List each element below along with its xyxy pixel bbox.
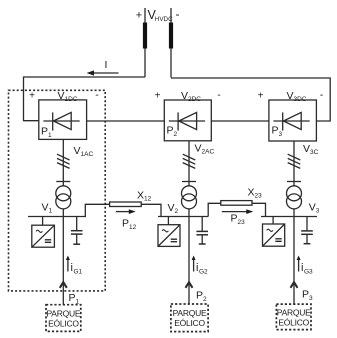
wire X23 to bus3 bbox=[252, 203, 266, 216]
label V_3C bbox=[303, 143, 319, 156]
label V_2AC bbox=[195, 143, 215, 156]
capacitor C2 bbox=[196, 217, 208, 245]
diode D1 bbox=[43, 112, 79, 130]
wire top right run to P3 bbox=[171, 78, 330, 121]
label X12 bbox=[137, 190, 152, 203]
label P3 feeder bbox=[302, 289, 313, 303]
converter U3 box bbox=[269, 100, 317, 141]
svg-text:V: V bbox=[195, 143, 202, 155]
wind farm box 1 bbox=[46, 305, 81, 332]
svg-text:12: 12 bbox=[144, 196, 152, 203]
svg-text:PARQUE: PARQUE bbox=[277, 307, 311, 317]
label V_3DC bbox=[258, 89, 324, 103]
label V_1DC bbox=[29, 89, 99, 103]
node V_HVDC label bbox=[136, 7, 180, 23]
electrode bar negative bbox=[169, 23, 173, 49]
wire X12 to bus2 bbox=[141, 204, 161, 216]
label V2 bbox=[168, 202, 179, 215]
arrow head feeder 3 bbox=[291, 282, 298, 288]
terminal tick column 3 bbox=[287, 181, 301, 183]
wire bus1 riser to X12 bbox=[85, 204, 109, 216]
svg-text:P: P bbox=[122, 218, 129, 230]
svg-text:+: + bbox=[136, 10, 142, 22]
svg-text:V: V bbox=[42, 202, 49, 214]
current arrow iG3 bbox=[297, 256, 313, 276]
label V_1AC bbox=[74, 145, 94, 158]
svg-text:G2: G2 bbox=[199, 269, 208, 276]
power flow arrow P23 bbox=[222, 209, 253, 226]
power flow arrow P12 bbox=[116, 209, 137, 231]
three-phase slashes column 3 bbox=[288, 154, 301, 168]
converter U2 box bbox=[164, 100, 211, 141]
svg-text:3: 3 bbox=[309, 295, 313, 302]
svg-text:12: 12 bbox=[129, 224, 137, 231]
current I arrow bbox=[87, 59, 119, 76]
label P2 bbox=[167, 125, 178, 139]
svg-text:P: P bbox=[272, 125, 279, 137]
svg-text:PARQUE: PARQUE bbox=[47, 308, 81, 318]
wire T2 to bus 2 bbox=[188, 209, 190, 217]
svg-text:3C: 3C bbox=[310, 149, 319, 156]
svg-text:2AC: 2AC bbox=[202, 149, 215, 156]
svg-text:+: + bbox=[29, 91, 35, 102]
arrow head feeder 1 bbox=[60, 282, 67, 288]
reactance X23 box bbox=[221, 201, 252, 206]
current arrow iG1 bbox=[66, 256, 83, 276]
svg-text:-: - bbox=[176, 7, 180, 21]
svg-text:X: X bbox=[248, 187, 255, 199]
bus node 1 bbox=[28, 216, 86, 218]
diode D2 bbox=[169, 112, 205, 130]
label P1 bbox=[41, 126, 52, 140]
svg-text:P: P bbox=[41, 126, 48, 138]
svg-text:P: P bbox=[167, 125, 174, 137]
svg-text:3: 3 bbox=[316, 208, 320, 215]
svg-text:V: V bbox=[168, 202, 175, 214]
svg-text:3: 3 bbox=[279, 131, 283, 138]
svg-text:G1: G1 bbox=[74, 269, 83, 276]
label X23 bbox=[248, 187, 263, 200]
svg-text:-: - bbox=[320, 89, 324, 101]
svg-text:2: 2 bbox=[175, 208, 179, 215]
svg-text:X: X bbox=[137, 190, 144, 202]
wire bus2 riser to X23 bbox=[208, 203, 221, 216]
converter U1 box bbox=[39, 100, 87, 139]
svg-text:P: P bbox=[196, 290, 203, 302]
svg-text:1: 1 bbox=[48, 132, 52, 139]
svg-text:-: - bbox=[217, 89, 221, 101]
label P3 bbox=[272, 125, 283, 139]
wire stem column 3 bbox=[293, 141, 295, 186]
svg-text:P: P bbox=[302, 289, 309, 301]
transformer T3 bbox=[287, 186, 302, 209]
dashed boundary box around unit 1 bbox=[9, 90, 106, 291]
svg-text:23: 23 bbox=[255, 193, 263, 200]
bus node 3 bbox=[261, 216, 317, 218]
svg-text:V: V bbox=[74, 145, 81, 157]
svg-text:1: 1 bbox=[49, 208, 53, 215]
wire feeder column 3 bbox=[293, 217, 295, 305]
svg-text:23: 23 bbox=[238, 219, 246, 226]
svg-text:2: 2 bbox=[203, 296, 207, 303]
transformer T2 bbox=[182, 186, 197, 209]
wire feeder column 1 bbox=[62, 217, 64, 305]
wind farm box 2 bbox=[171, 304, 208, 332]
svg-text:+: + bbox=[258, 91, 264, 102]
reactance X12 box bbox=[110, 202, 142, 207]
wire DC series P1 to P2 bbox=[87, 120, 165, 122]
svg-text:P: P bbox=[231, 213, 238, 225]
current arrow iG2 bbox=[192, 256, 208, 276]
label P1 feeder bbox=[69, 292, 80, 306]
electrode bar positive bbox=[143, 23, 147, 49]
svg-text:V: V bbox=[309, 202, 316, 214]
svg-text:+: + bbox=[155, 91, 161, 102]
wire positive DC pole vertical bbox=[144, 8, 146, 77]
arrow head feeder 2 bbox=[186, 282, 193, 288]
wire T3 to bus 3 bbox=[293, 209, 295, 217]
terminal tick column 1 bbox=[56, 181, 70, 183]
label V1 bbox=[42, 202, 53, 215]
svg-text:P: P bbox=[69, 292, 76, 304]
svg-text:PARQUE: PARQUE bbox=[173, 308, 207, 318]
wire DC series P2 to P3 bbox=[211, 120, 269, 122]
svg-text:-: - bbox=[95, 89, 99, 101]
svg-text:1AC: 1AC bbox=[81, 151, 94, 158]
wire T1 to bus 1 bbox=[62, 209, 64, 217]
VSC converter G2 bbox=[158, 217, 180, 247]
three-phase slashes column 2 bbox=[183, 154, 196, 168]
bus node 2 bbox=[158, 216, 208, 218]
label V3 bbox=[309, 202, 320, 215]
wire top left run to P1 bbox=[24, 77, 146, 121]
capacitor C3 bbox=[301, 217, 313, 244]
wire stem column 2 bbox=[188, 141, 190, 186]
diode D3 bbox=[273, 112, 309, 130]
VSC converter G1 bbox=[32, 217, 55, 248]
svg-text:G3: G3 bbox=[304, 269, 313, 276]
svg-text:EÓLICO: EÓLICO bbox=[174, 318, 205, 328]
svg-text:EÓLICO: EÓLICO bbox=[278, 317, 309, 327]
label P2 feeder bbox=[196, 290, 207, 304]
svg-text:V: V bbox=[303, 143, 310, 155]
VSC converter G3 bbox=[263, 217, 285, 247]
wire negative DC pole vertical bbox=[170, 8, 172, 78]
svg-text:I: I bbox=[105, 59, 108, 71]
capacitor C1 bbox=[71, 217, 83, 245]
wind farm box 3 bbox=[276, 304, 311, 330]
svg-text:2: 2 bbox=[174, 131, 178, 138]
transformer T1 bbox=[56, 186, 71, 209]
svg-text:EÓLICO: EÓLICO bbox=[48, 318, 79, 328]
label V_2DC bbox=[155, 89, 222, 103]
terminal tick column 2 bbox=[182, 181, 196, 183]
wire feeder column 2 bbox=[188, 217, 190, 305]
wire stem column 1 bbox=[62, 139, 64, 186]
three-phase slashes column 1 bbox=[57, 154, 70, 168]
